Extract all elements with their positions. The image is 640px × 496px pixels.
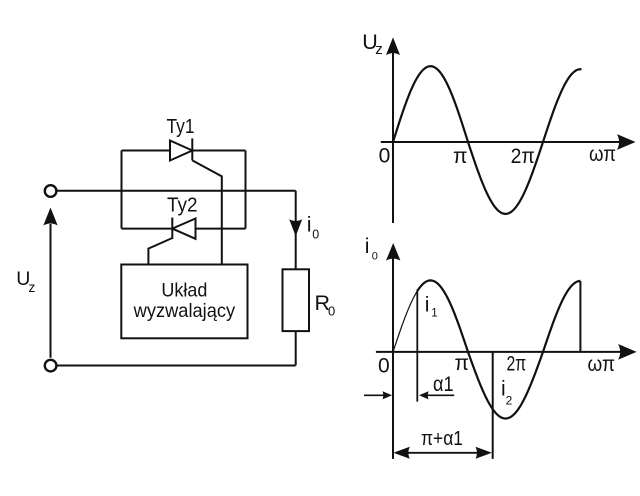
svg-text:ωπ: ωπ [589, 143, 616, 166]
svg-text:ωπ: ωπ [588, 353, 616, 376]
svg-text:Układ: Układ [161, 279, 207, 301]
svg-text:0: 0 [378, 354, 390, 377]
svg-text:z: z [375, 41, 383, 58]
svg-text:wyzwalający: wyzwalający [133, 300, 236, 322]
svg-text:1: 1 [431, 308, 437, 320]
svg-text:π: π [453, 145, 468, 168]
svg-text:i: i [425, 294, 430, 317]
svg-text:Ty1: Ty1 [167, 116, 195, 138]
svg-text:i: i [365, 235, 370, 258]
svg-text:0: 0 [372, 250, 378, 262]
svg-text:2π: 2π [507, 352, 527, 375]
svg-text:0: 0 [379, 145, 391, 168]
svg-text:2: 2 [506, 394, 513, 408]
svg-text:2π: 2π [511, 145, 535, 168]
svg-text:0: 0 [328, 304, 335, 319]
svg-text:z: z [28, 279, 35, 295]
svg-text:π: π [455, 352, 470, 375]
svg-text:Ty2: Ty2 [167, 195, 198, 217]
svg-text:α1: α1 [433, 373, 454, 396]
svg-text:i: i [307, 213, 312, 237]
svg-text:0: 0 [312, 227, 319, 241]
svg-text:π+α1: π+α1 [421, 427, 463, 450]
